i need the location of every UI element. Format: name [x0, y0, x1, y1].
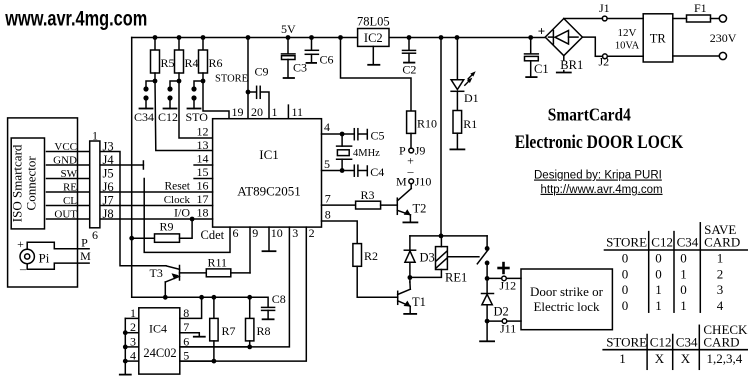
svg-text:STORE: STORE — [606, 334, 647, 349]
connector header J3-J8 body — [90, 141, 100, 228]
svg-text:C34: C34 — [676, 334, 698, 349]
svg-text:6: 6 — [183, 334, 189, 348]
svg-text:17: 17 — [197, 192, 209, 206]
buzzer Pi — [20, 249, 34, 263]
svg-text:0: 0 — [655, 251, 662, 266]
ground door lock return — [486, 321, 488, 341]
node rail junctions — [153, 35, 158, 40]
svg-text:0: 0 — [680, 251, 687, 266]
connector J10 M — [409, 179, 414, 184]
capacitor C3 polarized — [287, 38, 289, 54]
svg-text:T1: T1 — [412, 295, 426, 309]
svg-text:0: 0 — [622, 298, 629, 313]
diode D3 — [409, 236, 411, 250]
svg-text:R3: R3 — [361, 188, 375, 202]
jumper C34 — [146, 81, 155, 89]
svg-text:11: 11 — [292, 105, 304, 119]
wire I/O J8 to IC1 pin18 — [100, 218, 213, 220]
svg-text:J1: J1 — [599, 1, 610, 15]
svg-text:AT89C2051: AT89C2051 — [237, 184, 301, 199]
svg-text:C12: C12 — [651, 234, 673, 249]
LED D1 — [456, 38, 458, 80]
jumper C12 — [170, 81, 179, 89]
svg-text:J11: J11 — [500, 322, 516, 336]
svg-text:R4: R4 — [185, 56, 199, 70]
wire IC4 pin5 row — [180, 360, 214, 362]
svg-text:5: 5 — [183, 349, 189, 363]
svg-text:STORE: STORE — [215, 74, 248, 85]
svg-text:–: – — [19, 262, 27, 276]
svg-text:SmartCard4: SmartCard4 — [548, 105, 631, 125]
ground IC4 pin7 — [180, 333, 200, 337]
resistor R2 — [353, 244, 362, 267]
svg-text:18: 18 — [197, 206, 209, 220]
svg-text:ISO Smartcard: ISO Smartcard — [10, 144, 25, 222]
svg-text:1: 1 — [680, 298, 687, 313]
fuse F1 — [673, 18, 687, 20]
svg-text:24C02: 24C02 — [143, 346, 176, 360]
svg-text:IC4: IC4 — [149, 322, 167, 336]
svg-text:4MHz: 4MHz — [353, 148, 380, 159]
svg-text:13: 13 — [197, 138, 209, 152]
wire 12V/5V top rail — [132, 37, 546, 39]
svg-text:7: 7 — [325, 192, 331, 206]
svg-text:19: 19 — [232, 105, 244, 119]
table save-card rules — [605, 249, 748, 251]
wire relay top rail — [410, 235, 487, 237]
svg-text:7: 7 — [183, 320, 189, 334]
svg-text:X: X — [681, 351, 691, 366]
svg-text:T3: T3 — [150, 266, 163, 280]
svg-text:1: 1 — [655, 298, 662, 313]
svg-text:J4: J4 — [103, 153, 115, 167]
svg-text:GND: GND — [53, 155, 77, 167]
svg-text:9: 9 — [252, 226, 258, 240]
node C9 tap — [246, 90, 251, 95]
node R9 on I/O line — [190, 217, 195, 222]
svg-text:Clock: Clock — [164, 194, 191, 206]
svg-text:R6: R6 — [209, 56, 223, 70]
terminal 230V neutral — [719, 52, 726, 59]
svg-text:R9: R9 — [160, 220, 174, 234]
svg-text:Reset: Reset — [164, 181, 190, 193]
svg-text:D2: D2 — [494, 305, 509, 319]
svg-text:C6: C6 — [320, 53, 334, 67]
svg-text:C12: C12 — [158, 110, 178, 124]
wire TR to neutral terminal — [673, 55, 720, 57]
svg-text:2: 2 — [309, 226, 315, 240]
svg-text:IC1: IC1 — [259, 147, 279, 162]
transistor Q3 T3 PNP — [179, 266, 181, 281]
svg-text:10VA: 10VA — [615, 41, 640, 52]
ground J4 GND — [100, 164, 143, 166]
svg-text:Pi: Pi — [39, 251, 50, 266]
ground bridge negative — [563, 56, 565, 61]
svg-text:0: 0 — [622, 266, 629, 281]
svg-text:C5: C5 — [371, 129, 385, 143]
svg-text:0: 0 — [680, 282, 687, 297]
svg-text:5: 5 — [324, 157, 330, 171]
wire Clock J7 to IC1 pin17 — [100, 205, 213, 207]
regulator IC2 78L05 body — [358, 29, 389, 47]
op-amp U1 microcontroller IC1 AT89C2051 body — [213, 119, 322, 227]
svg-text:10: 10 — [271, 226, 283, 240]
svg-text:F1: F1 — [694, 1, 707, 15]
jumper STO — [194, 81, 203, 89]
svg-text:RE1: RE1 — [445, 271, 467, 285]
wire R6/STORE net to IC1 pin19 — [203, 81, 229, 119]
svg-text:Designed by: Kripa PURI: Designed by: Kripa PURI — [534, 170, 662, 182]
svg-text:+: + — [17, 237, 24, 251]
bridge rectifier BR1 — [545, 19, 582, 56]
resistor R1 — [456, 91, 458, 110]
svg-text:J2: J2 — [599, 55, 610, 69]
connector J2 — [603, 54, 608, 59]
svg-text:16: 16 — [197, 179, 209, 193]
wire Pi plus to P — [27, 242, 89, 249]
svg-text:C4: C4 — [370, 165, 384, 179]
svg-text:4: 4 — [130, 349, 136, 363]
pin 11 stub — [287, 105, 289, 119]
svg-text:STORE: STORE — [606, 234, 647, 249]
wire IC4 pin8 to VCC — [180, 297, 202, 318]
svg-text:3: 3 — [292, 226, 298, 240]
svg-text:VCC: VCC — [54, 141, 77, 153]
svg-text:R11: R11 — [208, 256, 228, 270]
transistor Q1 T1 NPN — [397, 291, 399, 304]
svg-text:1: 1 — [130, 306, 136, 320]
svg-text:J8: J8 — [103, 207, 114, 221]
label plus J12 — [499, 267, 509, 270]
svg-text:–: – — [407, 164, 415, 178]
table check-card rules — [603, 349, 748, 351]
wire IC1 pin5 to crystal — [322, 170, 343, 172]
svg-text:J5: J5 — [103, 167, 114, 181]
resistor R5 — [154, 38, 156, 51]
wire IC4 pin6 row — [180, 346, 250, 348]
svg-text:M: M — [396, 175, 407, 189]
wire IC1 pin4 to crystal — [322, 133, 343, 135]
svg-text:I/O: I/O — [174, 206, 190, 220]
connector J1 — [602, 16, 607, 21]
svg-text:2: 2 — [717, 266, 724, 281]
svg-text:3: 3 — [717, 282, 724, 297]
connector J12 — [487, 277, 502, 279]
wire IC1 pin8 to R2 — [322, 221, 358, 244]
svg-text:C1: C1 — [534, 62, 549, 76]
svg-text:1: 1 — [272, 105, 278, 119]
resistor R7 — [213, 297, 215, 318]
wire Reset J6 to IC1 pin16 — [100, 191, 213, 193]
resistor R3 — [356, 201, 381, 209]
wire SW J5 to IC1 pin6 Cdet — [144, 179, 230, 253]
svg-text:J10: J10 — [415, 175, 432, 189]
svg-text:BR1: BR1 — [560, 58, 583, 72]
wire IC1 pin2 down — [180, 227, 306, 361]
svg-text:1,2,3,4: 1,2,3,4 — [707, 351, 743, 366]
diode D2 — [486, 278, 488, 293]
svg-text:http://www.avr.4mg.com: http://www.avr.4mg.com — [541, 184, 663, 196]
wire bridge AC top to J1 — [564, 18, 603, 20]
svg-text:8: 8 — [183, 306, 189, 320]
svg-text:4: 4 — [324, 120, 330, 134]
wire IC1 pin9 to R11 — [249, 227, 251, 273]
wire IC1 pin15 stub — [194, 178, 213, 180]
svg-text:R7: R7 — [222, 324, 236, 338]
switch relay contact — [447, 256, 479, 258]
transformer TR body — [643, 14, 673, 62]
svg-text:C3: C3 — [293, 61, 307, 75]
svg-text:J6: J6 — [103, 180, 114, 194]
svg-text:C8: C8 — [272, 292, 286, 306]
connector ISO Smartcard outer box — [8, 118, 78, 287]
svg-text:J9: J9 — [415, 144, 426, 158]
svg-text:Electronic DOOR LOCK: Electronic DOOR LOCK — [515, 133, 684, 153]
svg-text:C12: C12 — [650, 334, 672, 349]
svg-text:J7: J7 — [103, 194, 114, 208]
svg-text:R1: R1 — [463, 117, 477, 131]
svg-text:T2: T2 — [413, 202, 427, 216]
svg-text:C34: C34 — [134, 110, 154, 124]
wire J10 to T2 collector — [410, 184, 412, 189]
terminal 230V live — [719, 15, 726, 22]
svg-text:6: 6 — [92, 228, 98, 242]
wire D3 to T1 collector — [409, 278, 411, 283]
svg-text:1: 1 — [92, 129, 98, 143]
capacitor C4 — [342, 170, 354, 172]
svg-text:TR: TR — [650, 32, 667, 46]
relay RE1 coil — [440, 236, 442, 247]
connector J9 P — [409, 148, 414, 153]
svg-text:5V: 5V — [281, 22, 296, 36]
svg-text:C2: C2 — [402, 63, 416, 77]
capacitor C6 — [311, 38, 313, 51]
svg-text:3: 3 — [130, 334, 136, 348]
svg-text:78L05: 78L05 — [357, 15, 390, 29]
svg-text:230V: 230V — [710, 31, 737, 45]
svg-text:CL: CL — [63, 195, 77, 207]
wire 12V down to relay — [440, 38, 442, 236]
svg-text:6: 6 — [233, 226, 239, 240]
svg-text:1: 1 — [619, 351, 626, 366]
svg-text:12V: 12V — [618, 27, 637, 39]
wire J3 VCC to T3 collector — [100, 152, 166, 266]
svg-text:P: P — [399, 144, 406, 158]
svg-text:2: 2 — [130, 320, 136, 334]
capacitor C9 — [248, 91, 256, 93]
connector ISO inner label box — [11, 138, 44, 229]
wire R4 net to IC1 pin12 — [179, 81, 213, 138]
svg-text:IC2: IC2 — [364, 31, 383, 45]
resistor R6 — [202, 38, 204, 51]
svg-text:P: P — [81, 236, 88, 250]
svg-text:R8: R8 — [257, 324, 271, 338]
wire Pi minus to M — [27, 263, 89, 269]
resistor R10 — [407, 111, 416, 133]
svg-text:D1: D1 — [464, 91, 479, 105]
wire VCC net to IC4/R7/R8/C8 — [132, 297, 268, 307]
resistor R11 — [180, 272, 207, 274]
svg-text:SW: SW — [61, 168, 78, 180]
ground IC1 pin10 — [268, 227, 270, 250]
svg-text:D3: D3 — [420, 251, 435, 265]
wire 5V to R10 — [341, 38, 412, 112]
svg-text:1: 1 — [680, 266, 687, 281]
svg-text:C9: C9 — [255, 65, 269, 79]
capacitor C8 — [262, 306, 275, 308]
svg-text:R2: R2 — [364, 249, 378, 263]
ground IC4 pins 1-4 — [120, 374, 131, 376]
svg-text:RE: RE — [63, 182, 77, 194]
svg-text:C34: C34 — [677, 234, 699, 249]
svg-text:0: 0 — [622, 282, 629, 297]
svg-text:Door strike or: Door strike or — [530, 284, 604, 299]
svg-text:J3: J3 — [103, 140, 114, 154]
svg-text:12: 12 — [197, 125, 209, 139]
op-amp U4 EEPROM IC4 24C02 body — [139, 308, 180, 374]
svg-text:0: 0 — [655, 266, 662, 281]
door lock box — [521, 269, 612, 330]
wire bridge AC bottom to J2 — [595, 55, 602, 57]
svg-text:0: 0 — [622, 251, 629, 266]
capacitor C1 polarized — [530, 38, 532, 54]
svg-text:Connector: Connector — [24, 156, 39, 211]
svg-text:X: X — [655, 351, 665, 366]
ground IC2 — [372, 46, 374, 64]
svg-text:Cdet: Cdet — [201, 228, 225, 242]
wire IC1 pin3 down — [180, 227, 290, 347]
svg-text:15: 15 — [197, 165, 209, 179]
svg-text:M: M — [80, 249, 91, 263]
capacitor C2 — [408, 38, 410, 51]
crystal X1 4MHz — [341, 134, 343, 146]
svg-text:CARD: CARD — [703, 334, 739, 349]
wire IC4 left pins common — [124, 318, 126, 374]
svg-text:STO: STO — [186, 110, 209, 124]
svg-text:CARD: CARD — [704, 234, 740, 249]
svg-text:J12: J12 — [500, 279, 517, 293]
wire R5 net to IC1 pin13 — [155, 81, 213, 151]
svg-text:Electric lock: Electric lock — [533, 299, 600, 314]
svg-text:8: 8 — [325, 208, 331, 222]
wire contact to J12 node — [486, 263, 488, 279]
wire connector pin rows — [47, 151, 90, 153]
resistor R8 — [249, 297, 251, 318]
capacitor C5 — [342, 133, 354, 135]
wire IC1 pin14 stub — [194, 164, 213, 166]
svg-text:4: 4 — [717, 298, 724, 313]
resistor R9 — [132, 237, 155, 239]
resistor R4 — [178, 38, 180, 51]
svg-text:R5: R5 — [161, 56, 175, 70]
svg-text:14: 14 — [197, 152, 209, 166]
svg-text:OUT: OUT — [54, 209, 77, 221]
transistor Q2 T2 NPN — [396, 198, 398, 214]
node 5V-R9 junction — [129, 236, 134, 241]
svg-text:R10: R10 — [417, 117, 437, 131]
wire 5V vertical feed left — [131, 38, 133, 298]
wire IC1 pin7 to R3 — [322, 204, 356, 206]
svg-text:1: 1 — [655, 282, 662, 297]
svg-text:www.avr.4mg.com: www.avr.4mg.com — [5, 7, 148, 30]
svg-text:20: 20 — [251, 105, 263, 119]
wire 5V to IC1 pin20 — [247, 38, 249, 119]
svg-text:+: + — [538, 24, 545, 39]
connector J11 — [487, 320, 502, 322]
svg-text:1: 1 — [717, 251, 724, 266]
